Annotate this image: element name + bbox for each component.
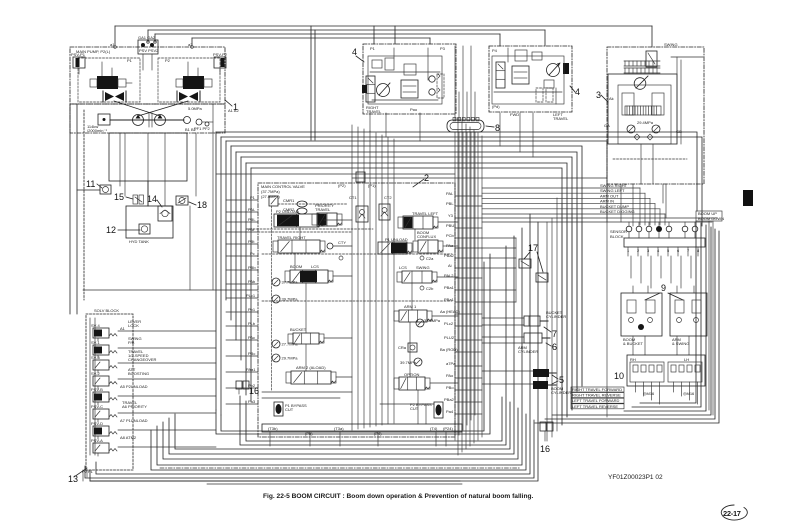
- regulator pilot stubs: [102, 62, 198, 76]
- swing spool hatch block: [625, 106, 661, 115]
- label 4 right travel: [352, 47, 364, 62]
- svg-text:PBa1: PBa1: [444, 285, 455, 290]
- swash plate left: [103, 91, 126, 102]
- left travel motor box: [489, 46, 572, 121]
- svg-text:Pb1: Pb1: [248, 307, 256, 312]
- main pump unit box: [70, 47, 225, 133]
- solenoid valve PSV-B: [91, 384, 148, 405]
- svg-text:LEFT TRAVEL REVERSE: LEFT TRAVEL REVERSE: [572, 404, 618, 409]
- svg-text:& SWING: & SWING: [672, 341, 689, 346]
- svg-text:11: 11: [86, 179, 95, 189]
- svg-text:PAL: PAL: [248, 207, 256, 212]
- svg-text:Y3: Y3: [448, 213, 454, 218]
- svg-text:BOOM: BOOM: [290, 264, 302, 269]
- svg-text:37.7MPa: 37.7MPa: [282, 280, 299, 285]
- svg-text:SWING: SWING: [664, 42, 678, 47]
- svg-text:PBL: PBL: [248, 217, 256, 222]
- MCV right port labels: [440, 191, 460, 414]
- wire bottom drain line 2: [207, 483, 462, 485]
- wire MCV right port links: [455, 196, 516, 414]
- wire bottom bus 2: [85, 420, 534, 478]
- wire drain dashed line: [160, 467, 520, 469]
- valve bucket: [288, 333, 324, 344]
- svg-text:(T3b): (T3b): [268, 426, 278, 431]
- svg-text:PLc2: PLc2: [444, 321, 454, 326]
- valve boom + LCS: [285, 270, 333, 283]
- pressure sensor item 16 MCV: [236, 381, 259, 396]
- boom cylinders item 5: [533, 369, 571, 395]
- right travel counterbalance spool: [366, 76, 375, 102]
- check item 11: [86, 179, 111, 194]
- svg-text:CMR1: CMR1: [283, 198, 295, 203]
- svg-text:Pa3: Pa3: [248, 399, 256, 404]
- pump port labels: [110, 42, 239, 132]
- svg-text:A5 P2UNLOAD: A5 P2UNLOAD: [120, 384, 148, 389]
- wire bottom bus 1: [90, 222, 538, 481]
- left travel inner frame: [492, 56, 564, 104]
- svg-text:PSV PSV2: PSV PSV2: [139, 48, 159, 53]
- svg-text:LOCK: LOCK: [128, 323, 139, 328]
- svg-text:B1 B2: B1 B2: [185, 127, 197, 132]
- relief 29.7MPa: [272, 354, 298, 362]
- wire bottom bus 6: [163, 408, 518, 459]
- svg-text:Pc: Pc: [250, 251, 255, 256]
- svg-text:15: 15: [114, 192, 124, 202]
- relief 37.7MPa arm: [416, 318, 441, 327]
- drain filter item 12: [106, 224, 150, 235]
- svg-text:GA1 GA2: GA1 GA2: [138, 35, 156, 40]
- svg-text:PBL: PBL: [446, 201, 454, 206]
- MCV center check valve A: [356, 206, 368, 222]
- MCV small checks C2a C2b: [338, 183, 434, 291]
- oil cooler item 18: [176, 196, 207, 210]
- solenoid valve SV-2: [91, 367, 136, 389]
- swing motor circle: [634, 76, 648, 89]
- swing valve frame: [608, 57, 703, 144]
- tank feed lines: [148, 104, 213, 206]
- svg-text:12: 12: [106, 225, 116, 235]
- engine motor symbol: [87, 114, 110, 133]
- svg-text:(T3a): (T3a): [334, 426, 344, 431]
- svg-text:A8 ATM2: A8 ATM2: [120, 435, 137, 440]
- relief 39.7MPa arm: [400, 358, 422, 366]
- svg-text:A1: A1: [120, 326, 126, 331]
- valve swing + LCS: [397, 271, 437, 283]
- label 9: [645, 283, 683, 300]
- svg-text:14: 14: [147, 194, 157, 204]
- pump crossover linkage: [114, 101, 188, 116]
- travel right check: [327, 243, 333, 249]
- wire left edge verticals: [70, 104, 100, 314]
- pilot line connector item 8: [447, 118, 500, 134]
- svg-text:6: 6: [552, 342, 557, 352]
- valve boom conflux: [413, 240, 443, 253]
- svg-text:BOOM DOWN: BOOM DOWN: [698, 216, 724, 221]
- right travel relief pair: [429, 74, 444, 98]
- swing motor box: [607, 42, 704, 184]
- svg-text:3: 3: [596, 90, 601, 100]
- left travel top valves: [494, 48, 562, 104]
- wire center vertical bundle: [352, 125, 394, 430]
- svg-text:27.7MPa: 27.7MPa: [282, 342, 299, 347]
- valve P2 unload: [274, 214, 324, 227]
- swing make-up manifold: [646, 51, 657, 67]
- MCV left port labels: [246, 195, 256, 404]
- wire pilot drop bundle mid-right: [547, 198, 582, 441]
- right travel motor box: [363, 44, 456, 114]
- svg-text:YF01Z00023P1 02: YF01Z00023P1 02: [608, 474, 663, 481]
- solenoid valve SV-3: [91, 349, 144, 373]
- svg-text:ARM 1: ARM 1: [404, 304, 417, 309]
- svg-text:PAc: PAc: [248, 335, 255, 340]
- wire right mid horizontals: [216, 174, 717, 417]
- valve P1 bypass cut: [274, 402, 307, 416]
- left travel valve block: [512, 50, 529, 84]
- left travel motor: [547, 63, 561, 77]
- MCV lower drain links: [262, 390, 434, 424]
- svg-text:CYLINDER: CYLINDER: [518, 349, 538, 354]
- swing relief left: [627, 120, 654, 133]
- svg-text:PBa2: PBa2: [444, 397, 455, 402]
- svg-text:PSV-A: PSV-A: [91, 438, 103, 443]
- pilot valve PSV-P1: [71, 52, 86, 74]
- svg-text:C2a: C2a: [426, 256, 434, 261]
- svg-text:PLb: PLb: [248, 321, 256, 326]
- svg-text:CTY: CTY: [338, 240, 346, 245]
- strainer item 15: [114, 192, 144, 204]
- svg-text:2: 2: [424, 173, 429, 183]
- svg-text:P2: P2: [165, 58, 171, 63]
- check valve item 14: [147, 194, 172, 221]
- svg-text:TRAVEL: TRAVEL: [366, 109, 382, 114]
- svg-text:BUCKET: BUCKET: [290, 327, 307, 332]
- svg-text:ARM 2 (ALOAD): ARM 2 (ALOAD): [296, 365, 326, 370]
- label 3: [596, 90, 608, 102]
- valve P1 unload: [378, 242, 412, 254]
- pilot valve block boom-bucket: [621, 293, 662, 346]
- swing drain verticals: [641, 144, 653, 184]
- MCV top port box: [356, 172, 365, 182]
- svg-text:PSV-D: PSV-D: [91, 421, 103, 426]
- svg-text:SV-4: SV-4: [91, 323, 100, 328]
- svg-text:22-17: 22-17: [723, 509, 741, 518]
- sensor to manifold drops: [631, 256, 694, 293]
- travel function labels: [571, 387, 624, 409]
- wire top bundle: [115, 26, 652, 140]
- svg-text:SV-3: SV-3: [91, 355, 100, 360]
- wire solv drain drops: [82, 470, 84, 481]
- svg-text:Pa4: Pa4: [446, 409, 454, 414]
- wire bottom drain line: [90, 480, 460, 482]
- black page tab: [743, 190, 753, 206]
- pilot function labels: [482, 183, 665, 225]
- engine box: [109, 133, 187, 181]
- svg-text:CONFLUX: CONFLUX: [417, 234, 436, 239]
- svg-text:P2 P1: P2 P1: [82, 469, 94, 474]
- svg-text:Ak: Ak: [609, 96, 614, 101]
- svg-text:PBU: PBU: [446, 223, 454, 228]
- svg-text:P2 UNLOAD: P2 UNLOAD: [276, 209, 299, 214]
- drive shaft: [110, 113, 184, 127]
- svg-text:PLU2: PLU2: [444, 335, 455, 340]
- svg-text:PAL: PAL: [446, 191, 454, 196]
- valve option: [394, 377, 430, 390]
- svg-text:TRAVEL RIGHT: TRAVEL RIGHT: [277, 235, 306, 240]
- main pump P2: [155, 115, 166, 126]
- swash plate right: [177, 91, 200, 102]
- svg-text:5: 5: [559, 375, 564, 385]
- CRa check: [398, 343, 417, 352]
- svg-text:P1: P1: [250, 195, 256, 200]
- svg-text:SV-1: SV-1: [91, 340, 100, 345]
- svg-text:4: 4: [352, 47, 357, 57]
- svg-text:SOLV BLOCK: SOLV BLOCK: [94, 308, 119, 313]
- svg-text:PBo: PBo: [446, 385, 454, 390]
- main pump P1: [133, 115, 144, 126]
- svg-text:18: 18: [197, 200, 207, 210]
- svg-text:CUT: CUT: [285, 407, 294, 412]
- wire pump drain stubs: [125, 133, 196, 196]
- wire bottom bus 9: [240, 246, 506, 445]
- svg-text:CUT: CUT: [410, 406, 419, 411]
- svg-text:BLOCK: BLOCK: [610, 234, 624, 239]
- svg-text:CT1: CT1: [349, 195, 357, 200]
- svg-text:PAa: PAa: [446, 243, 454, 248]
- svg-text:BOOSTING: BOOSTING: [128, 371, 149, 376]
- svg-text:(P24): (P24): [443, 426, 453, 431]
- wire connector drop bundle: [455, 46, 475, 440]
- svg-text:PBa1: PBa1: [444, 297, 455, 302]
- svg-text:PSV-B: PSV-B: [91, 387, 103, 392]
- boom up/down labels: [696, 211, 724, 221]
- MCV pilot filter: [269, 196, 278, 206]
- svg-text:LCS: LCS: [399, 265, 407, 270]
- svg-text:PF1 PF2: PF1 PF2: [194, 126, 211, 131]
- MCV center check valve B: [379, 204, 390, 220]
- svg-text:8: 8: [495, 123, 500, 133]
- svg-text:CYLINDER: CYLINDER: [551, 390, 571, 395]
- svg-text:39.7MPa: 39.7MPa: [400, 360, 417, 365]
- svg-text:(Pd): (Pd): [492, 104, 500, 109]
- right travel motor: [377, 83, 391, 97]
- CMR shuttle valves: [283, 198, 307, 214]
- svg-text:a1: a1: [110, 42, 115, 47]
- label 2: [413, 173, 429, 187]
- svg-text:A6 PRIORITY: A6 PRIORITY: [122, 404, 147, 409]
- svg-text:(27.5MPa): (27.5MPa): [261, 194, 280, 199]
- wire bottom bus 12: [221, 262, 484, 431]
- wire cylinder feed lines: [482, 318, 533, 384]
- swing heat hatch: [624, 61, 660, 73]
- svg-text:OPTION: OPTION: [404, 372, 419, 377]
- wire bottom bus 7: [169, 236, 514, 454]
- pressure sensor item 16 bottom: [540, 422, 553, 454]
- wire bottom bus 4: [151, 414, 526, 470]
- wire left mid links: [83, 132, 258, 290]
- main control valve box: [258, 183, 455, 437]
- solenoid valve SV-1: [91, 336, 142, 358]
- sensor block: [610, 222, 705, 256]
- svg-text:LCS: LCS: [311, 264, 319, 269]
- svg-text:PCb: PCb: [446, 233, 455, 238]
- swing bottom ports: [604, 96, 687, 159]
- svg-text:PAt: PAt: [248, 227, 255, 232]
- svg-text:PSV-C: PSV-C: [91, 404, 103, 409]
- regulator right: [176, 76, 212, 89]
- svg-text:PSV-P1: PSV-P1: [71, 52, 86, 57]
- solenoid valve PSV-D: [91, 418, 148, 439]
- svg-text:1: 1: [233, 102, 238, 112]
- svg-text:Pяo: Pяo: [410, 107, 418, 112]
- wire MCV left port links: [226, 200, 258, 404]
- svg-text:LEFT TRAVEL FORWARD: LEFT TRAVEL FORWARD: [572, 398, 620, 403]
- relief 27.7MPa: [272, 340, 298, 348]
- svg-text:PAo: PAo: [446, 373, 454, 378]
- svg-text:PAa1: PAa1: [246, 367, 256, 372]
- pilot pump: [184, 106, 203, 124]
- wire right-of-valve vertical bundle: [458, 118, 482, 455]
- svg-text:LH: LH: [684, 357, 689, 362]
- svg-text:A7 P1UNLOAD: A7 P1UNLOAD: [120, 418, 148, 423]
- wire bottom bus 11: [216, 254, 490, 434]
- svg-text:4: 4: [575, 87, 580, 97]
- tank rail drops: [270, 432, 446, 446]
- solenoid valve PSV-C: [91, 400, 138, 422]
- wire bottom bus 3: [96, 214, 530, 474]
- svg-text:PBc: PBc: [248, 351, 255, 356]
- relief 37.7MPa boom: [272, 278, 298, 286]
- svg-text:29.4MPa: 29.4MPa: [637, 120, 654, 125]
- svg-text:a2: a2: [188, 42, 193, 47]
- svg-text:RIGHT TRAVEL REVERSE: RIGHT TRAVEL REVERSE: [572, 393, 621, 398]
- valve P2 bypass cut: [410, 402, 443, 418]
- svg-text:Ba (ROD): Ba (ROD): [440, 347, 458, 352]
- svg-text:GB: GB: [676, 129, 682, 134]
- solenoid valve PSV-A: [91, 435, 137, 456]
- svg-text:Aa (HEAD): Aa (HEAD): [440, 309, 460, 314]
- svg-text:RH: RH: [630, 357, 636, 362]
- svg-text:◎M16: ◎M16: [683, 391, 695, 396]
- svg-text:(T4): (T4): [430, 426, 438, 431]
- svg-text:GA: GA: [604, 123, 610, 128]
- svg-text:(P2): (P2): [338, 183, 346, 188]
- svg-text:P/B: P/B: [128, 340, 135, 345]
- wire swing drops: [621, 184, 666, 226]
- svg-text:9: 9: [661, 283, 666, 293]
- valve travel priority: [312, 213, 342, 226]
- svg-text:5.0MPa: 5.0MPa: [188, 106, 203, 111]
- svg-text:/2000min⁻¹: /2000min⁻¹: [87, 128, 108, 133]
- svg-text:FWD: FWD: [510, 112, 519, 117]
- label 4 left travel: [570, 86, 580, 97]
- svg-text:◎M16: ◎M16: [643, 391, 655, 396]
- svg-text:PLc1: PLc1: [246, 293, 256, 298]
- svg-text:PAb: PAb: [248, 279, 256, 284]
- svg-text:RIGHT TRAVEL FORWARD: RIGHT TRAVEL FORWARD: [572, 387, 622, 392]
- relief 39.7MPa: [272, 295, 298, 303]
- regulator left: [90, 76, 132, 89]
- pilot valve block arm-swing: [670, 293, 707, 346]
- pump inner sub-box left: [78, 58, 140, 102]
- svg-text:PAL2: PAL2: [444, 273, 454, 278]
- label 1: [225, 100, 238, 112]
- svg-text:P1: P1: [370, 46, 376, 51]
- svg-text:CRa: CRa: [398, 345, 407, 350]
- solenoid valve block box: [86, 308, 133, 470]
- svg-text:P4: P4: [492, 48, 498, 53]
- valve arm 1: [394, 310, 432, 322]
- valve arm 2: [286, 371, 336, 384]
- solenoid valve SV-4: [91, 319, 141, 341]
- wire bottom bus 8: [175, 402, 510, 449]
- svg-text:P1 UNLOAD: P1 UNLOAD: [385, 237, 408, 242]
- svg-text:Fig. 22-5 BOOM CIRCUIT : Boom: Fig. 22-5 BOOM CIRCUIT : Boom down opera…: [263, 493, 534, 500]
- right travel inner frame: [368, 56, 442, 104]
- svg-text:SWING: SWING: [416, 265, 430, 270]
- svg-text:P3: P3: [440, 46, 446, 51]
- valve travel right: [273, 240, 325, 253]
- page number: [721, 505, 747, 520]
- wire solv block to bundle links: [118, 331, 216, 447]
- block 9 to 10 drops: [633, 336, 689, 355]
- svg-text:PSV-P2: PSV-P2: [213, 52, 228, 57]
- svg-text:PBt: PBt: [248, 239, 255, 244]
- svg-text:(P1): (P1): [368, 183, 376, 188]
- svg-text:C2b: C2b: [426, 286, 434, 291]
- MCV tank rail: [262, 424, 462, 436]
- arm cylinder item 6: [518, 333, 557, 354]
- svg-text:16: 16: [249, 386, 259, 396]
- swing relief right: [652, 125, 660, 133]
- svg-text:SV-2: SV-2: [91, 371, 100, 376]
- svg-text:(Pb): (Pb): [305, 431, 313, 436]
- svg-text:PBa2: PBa2: [444, 253, 455, 258]
- wire right corner group: [535, 221, 719, 423]
- travel pilot manifold item 10: [614, 355, 705, 404]
- svg-text:29.7MPa: 29.7MPa: [282, 356, 299, 361]
- svg-text:PBb: PBb: [248, 265, 256, 270]
- svg-text:CT2: CT2: [384, 195, 392, 200]
- MCV internal links: [295, 220, 458, 383]
- hydraulic tank box: [126, 206, 173, 244]
- svg-text:BUCKET DIGGING: BUCKET DIGGING: [600, 209, 635, 214]
- gauge connector box: [114, 35, 194, 70]
- right travel valve block: [401, 64, 418, 98]
- svg-text:CHANGEOVER: CHANGEOVER: [128, 357, 157, 362]
- bucket cylinder item 7: [524, 310, 566, 339]
- wire bottom bus 10: [246, 397, 502, 441]
- right travel port labels: [370, 46, 446, 112]
- valve travel left: [398, 216, 438, 229]
- svg-text:37.7MPa: 37.7MPa: [424, 318, 441, 323]
- MCV pilot dashed links: [246, 204, 452, 390]
- wire travel box drops: [370, 113, 533, 157]
- shuttle item 17: [519, 243, 548, 282]
- wire mid horizontal bundle: [216, 132, 702, 425]
- svg-text:10: 10: [614, 371, 624, 381]
- svg-text:TRAVEL: TRAVEL: [553, 116, 569, 121]
- pilot relief valve: [194, 119, 213, 131]
- svg-text:HYD TANK: HYD TANK: [129, 239, 149, 244]
- right travel top valves: [370, 48, 440, 100]
- right travel brake solenoid: [362, 85, 367, 93]
- left travel counterbalance spool: [496, 62, 505, 88]
- label 13: [68, 468, 94, 484]
- svg-text:Ai: Ai: [448, 263, 452, 268]
- left travel relief block: [536, 63, 569, 102]
- svg-text:16: 16: [540, 444, 550, 454]
- wire bottom bus 5: [157, 228, 522, 465]
